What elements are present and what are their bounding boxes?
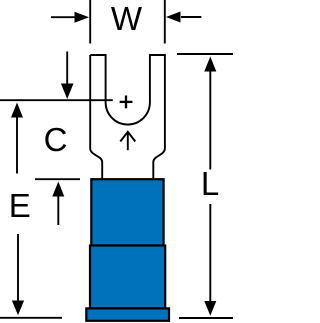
svg-text:L: L <box>201 165 219 202</box>
svg-text:C: C <box>44 121 68 158</box>
svg-text:W: W <box>111 0 143 37</box>
svg-text:E: E <box>9 187 31 224</box>
